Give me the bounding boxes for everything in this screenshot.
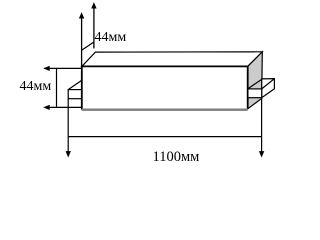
svg-text:44мм: 44мм bbox=[20, 79, 52, 94]
left dimension lower arrow (left) bbox=[45, 106, 82, 108]
beam front-bottom edge (gray) bbox=[82, 109, 248, 111]
left dimension upper arrow (left) bbox=[45, 67, 82, 69]
top dimension front arrow (up) bbox=[79, 12, 84, 18]
beam top face bbox=[82, 52, 262, 67]
beam front-left edge bbox=[81, 66, 83, 110]
left dimension connector bbox=[56, 68, 58, 107]
top dimension receding connector bbox=[82, 42, 94, 50]
beam front face bbox=[82, 66, 248, 109]
bottom dimension left extension line bbox=[67, 99, 69, 153]
bottom dimension left arrow (down) bbox=[66, 151, 71, 157]
top dimension back arrow (up) bbox=[91, 2, 96, 8]
beam front-right edge bbox=[247, 66, 249, 109]
left stub top receding edge bbox=[68, 80, 82, 89]
top dimension front extension line bbox=[81, 16, 83, 67]
right stub top receding edge bbox=[248, 79, 262, 89]
right stub outer faces bbox=[262, 79, 275, 98]
right stub right-face top edge bbox=[262, 79, 275, 89]
bottom dimension right arrow (down) bbox=[259, 151, 264, 157]
svg-text:1100мм: 1100мм bbox=[153, 149, 200, 165]
beam right face (shaded) bbox=[248, 52, 263, 109]
bottom dimension right extension line bbox=[261, 98, 263, 153]
top dimension back extension line bbox=[93, 6, 95, 49]
svg-text:44мм: 44мм bbox=[95, 30, 127, 45]
beam front-top edge bbox=[82, 65, 248, 67]
left stub front face bbox=[68, 90, 81, 99]
right stub front face bbox=[248, 89, 262, 98]
bottom dimension line bbox=[68, 136, 261, 138]
